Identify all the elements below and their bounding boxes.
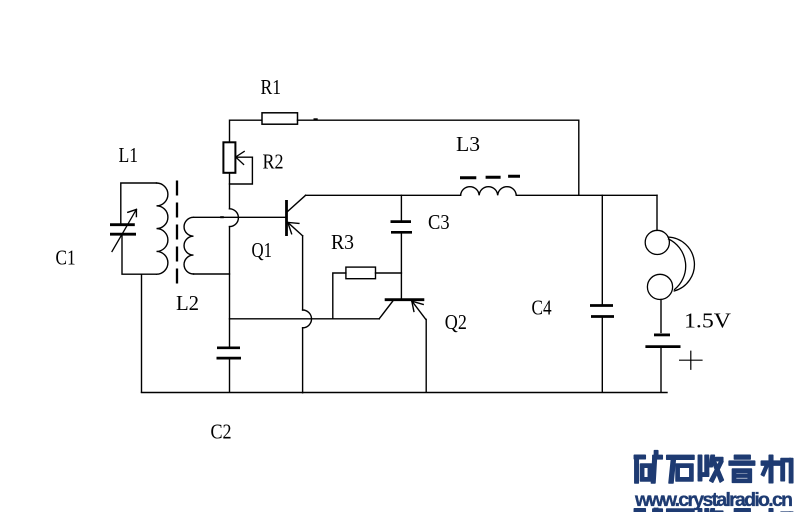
wire left branch down — [141, 274, 143, 392]
earphone — [645, 230, 669, 254]
junction tick on base wire — [220, 216, 224, 218]
ground rail (bottom) — [142, 392, 668, 394]
wire hop over R3 rail — [303, 310, 312, 328]
L3 core — [460, 176, 520, 178]
wire L2 top to Q1 base — [194, 216, 286, 218]
wire C4 to ground — [601, 317, 603, 393]
wire L1 loop top — [121, 183, 157, 223]
wire main vertical below R2 — [229, 173, 231, 209]
wire earphone to battery — [660, 300, 662, 333]
wire R1 top rail right — [298, 120, 579, 195]
inductor L2 — [184, 217, 193, 274]
glyph yin — [734, 455, 750, 459]
wire Q2 emitter to ground — [425, 319, 427, 392]
wire collector rail left — [306, 194, 461, 196]
capacitor C2 — [217, 346, 240, 349]
resistor R2 (rheostat) — [223, 142, 235, 173]
glyph kuang — [634, 455, 645, 459]
wire to earphone — [656, 195, 658, 230]
C1 arrow — [112, 209, 136, 251]
wire main vertical to C2 — [229, 227, 231, 347]
wire Q1 emitter down — [302, 236, 304, 310]
glyph ji — [761, 461, 780, 465]
wire Q1 emitter to ground — [302, 328, 304, 393]
wire C4 branch top — [601, 195, 603, 304]
inductor L3 — [461, 187, 517, 196]
resistor R1 — [262, 113, 298, 124]
wire L2 bottom to main vertical — [194, 273, 230, 275]
wire C2 to ground rail — [229, 358, 231, 392]
wire hop over base wire — [230, 209, 239, 227]
wire C3 top — [400, 195, 402, 221]
resistor R3 — [346, 267, 376, 279]
transistor Q1 — [285, 200, 288, 236]
wire battery to ground — [660, 347, 662, 393]
battery plus sign — [680, 351, 702, 369]
battery B1 — [654, 333, 670, 336]
wire C1 bottom — [122, 234, 157, 274]
capacitor C3 — [391, 220, 412, 223]
capacitor C4 — [590, 304, 613, 307]
wire bias rail — [230, 318, 380, 320]
junction tick on R1 rail — [314, 118, 318, 120]
wire R3 left drop — [333, 273, 346, 319]
wire R2 wiper loop — [230, 157, 253, 184]
wire collector rail right — [516, 194, 657, 196]
capacitor C1 (variable) — [110, 223, 135, 226]
inductor L1 — [157, 183, 168, 274]
transformer core — [176, 181, 178, 291]
glyph shi — [667, 455, 694, 459]
transistor Q2 — [385, 298, 425, 301]
wire R3 right — [376, 272, 402, 274]
wire C3 to Q2 base — [400, 232, 402, 298]
R2 wiper arrow — [237, 156, 252, 158]
glyph shou — [698, 455, 701, 481]
wire R1 top rail left — [230, 120, 262, 142]
